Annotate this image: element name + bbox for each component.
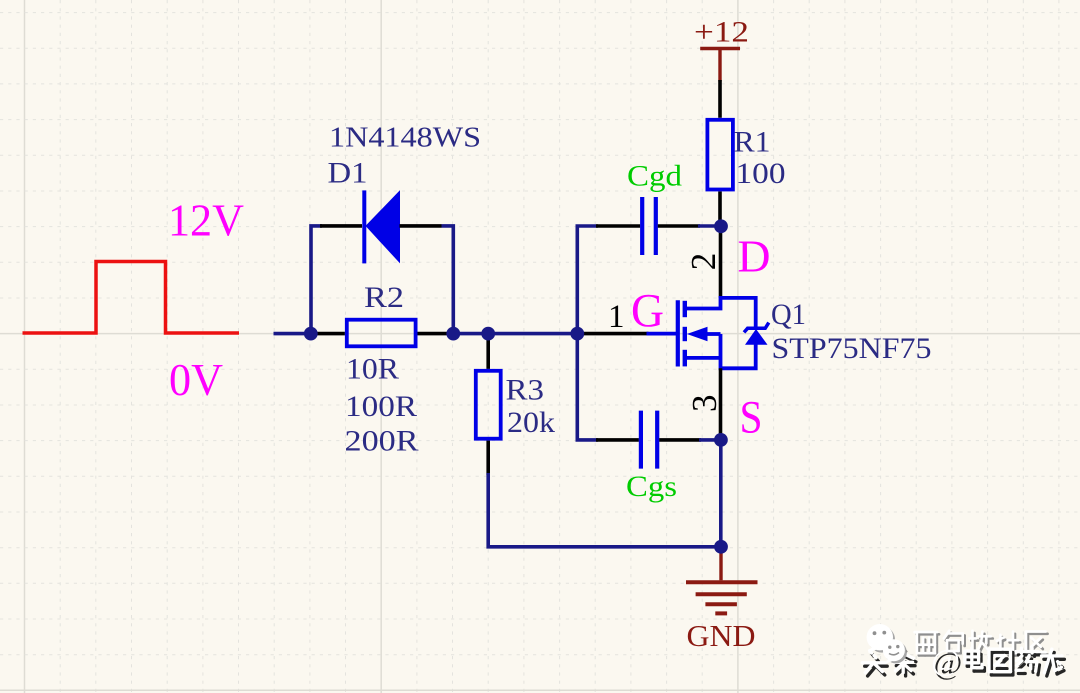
svg-text:D: D: [738, 230, 771, 281]
source node junction: [714, 433, 728, 447]
svg-text:G: G: [631, 284, 664, 337]
resistor R3: [476, 371, 501, 439]
wire Cgd to drain node: [698, 224, 716, 228]
svg-text:20k: 20k: [507, 406, 555, 439]
ground: [686, 547, 758, 614]
wire Q1 drain pin 2: [719, 227, 723, 298]
svg-text:R2: R2: [364, 281, 404, 314]
wire node C to node D: [488, 332, 577, 336]
node B junction: [446, 327, 460, 341]
drain node junction: [714, 219, 728, 233]
ground node junction: [714, 540, 728, 554]
svg-text:STP75NF75: STP75NF75: [772, 332, 932, 365]
svg-text:3: 3: [685, 394, 724, 412]
wire R1 top pin: [718, 80, 722, 118]
watermark: [862, 624, 1064, 680]
resistor R2: [347, 320, 416, 347]
node D junction: [570, 327, 584, 341]
wire R2 right pin: [418, 332, 448, 336]
svg-text:2: 2: [684, 253, 723, 271]
svg-text:@: @: [931, 642, 960, 677]
capacitor Cgs: [641, 411, 657, 469]
svg-text:1N4148WS: 1N4148WS: [329, 121, 481, 153]
wire node D to Q1 gate: [577, 332, 648, 336]
svg-text:Cgs: Cgs: [626, 470, 677, 503]
svg-text:200R: 200R: [345, 424, 419, 457]
svg-text:10R: 10R: [346, 353, 399, 386]
wire D1 right branch: [442, 226, 454, 334]
svg-text:Cgd: Cgd: [627, 159, 682, 192]
node A junction: [304, 327, 318, 341]
wire Cgd left pin: [596, 224, 640, 228]
wire node D down to Cgs: [577, 334, 598, 440]
svg-text:0V: 0V: [169, 354, 223, 405]
svg-text:12V: 12V: [168, 195, 244, 246]
svg-text:1: 1: [608, 299, 625, 335]
transistor Q1: [647, 298, 769, 368]
wire R3 top pin: [486, 334, 490, 369]
svg-text:R1: R1: [734, 126, 771, 159]
wire D1 left branch: [311, 226, 322, 334]
svg-text:100R: 100R: [345, 390, 417, 423]
wire D1 anode pin: [400, 224, 442, 228]
svg-text:+12: +12: [694, 15, 749, 48]
wire node B to node C: [447, 332, 488, 336]
node C junction: [481, 327, 495, 341]
svg-text:S: S: [740, 391, 763, 443]
svg-text:GND: GND: [687, 618, 756, 653]
wire source node to ground node: [719, 440, 723, 547]
wire D1 cathode pin: [320, 224, 362, 228]
wire Cgs left pin: [596, 438, 639, 442]
resistor R1: [707, 120, 733, 190]
svg-text:Q1: Q1: [771, 298, 806, 331]
diode D1: [362, 190, 400, 263]
wire R1 bottom pin: [718, 192, 722, 227]
wire R2 left pin: [311, 332, 345, 336]
svg-text:D1: D1: [328, 156, 368, 189]
wire node D up to Cgd: [577, 226, 598, 334]
wire Q1 source pin 3: [719, 368, 723, 440]
wire input to node A: [274, 332, 313, 336]
wire R3 to ground rail: [488, 473, 716, 547]
capacitor Cgd: [642, 197, 656, 255]
wire R3 bottom pin: [486, 441, 490, 476]
wire Cgs right pin: [659, 438, 701, 442]
svg-text:100: 100: [736, 157, 786, 190]
svg-text:R3: R3: [506, 374, 545, 407]
power +12: [700, 49, 740, 82]
input pulse waveform: [23, 262, 240, 334]
wire Cgd right pin: [658, 224, 700, 228]
wire Cgs to source node: [699, 438, 716, 442]
